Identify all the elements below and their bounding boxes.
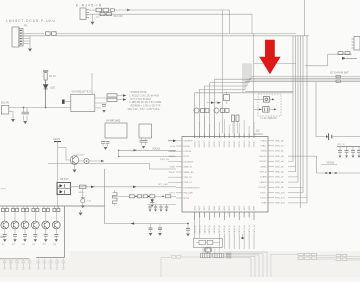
- svg-text:R12 330: R12 330: [114, 15, 124, 18]
- svg-text:LM48C7-DCAB-P-UKU: LM48C7-DCAB-P-UKU: [6, 19, 56, 23]
- capacitor C9 electrolytic: [82, 189, 84, 198]
- arrow on opto wire: [91, 186, 95, 189]
- supply rail wires to CPU: [119, 150, 176, 156]
- capacitor C13: [159, 224, 161, 228]
- CPU right net labels: [275, 139, 286, 204]
- svg-text:TOUT1: TOUT1: [260, 192, 268, 194]
- resistor R108 on second row: [107, 13, 112, 16]
- svg-text:NTRS: NTRS: [184, 198, 190, 200]
- svg-text:R1 1K: R1 1K: [49, 74, 56, 78]
- ground below J2: [91, 22, 95, 25]
- faint resistor cluster A: [298, 253, 317, 259]
- svg-text:SEQ 3.3V - 1.8V - 1.25V 5-8ms: SEQ 3.3V - 1.8V - 1.25V 5-8ms: [128, 109, 161, 111]
- svg-text:OPT1: OPT1: [1, 189, 7, 191]
- diode D2: [107, 98, 117, 101]
- svg-text:* POWER NOTE:: * POWER NOTE:: [129, 92, 147, 94]
- svg-text:OUT 3.3V/0.8A MAX: OUT 3.3V/0.8A MAX: [130, 98, 151, 101]
- decoupling cap at 359: [357, 151, 360, 153]
- svg-text:VDDMOP: VDDMOP: [184, 141, 194, 143]
- CPU top pin wires above: [195, 113, 254, 134]
- parts inside sub board box: [199, 240, 206, 244]
- arrowhead after FB4 wire: [123, 94, 126, 97]
- svg-text:WRD_A5: WRD_A5: [275, 165, 285, 168]
- arrowheads osc: [272, 98, 275, 100]
- driver stage Q3: [21, 208, 29, 246]
- sub board box under CPU: [193, 238, 222, 247]
- bead cluster FB5: [194, 108, 199, 113]
- svg-text:VDD1IO: VDD1IO: [219, 140, 221, 148]
- driver stage Q1: [1, 208, 9, 246]
- resistor R102: [103, 8, 109, 12]
- dashed box oscillator section: [258, 94, 281, 116]
- svg-text:4N35: 4N35: [79, 192, 85, 194]
- L wire from CPU pin row3: [288, 156, 360, 173]
- notes text block: [128, 92, 162, 111]
- red arrow annotation: [259, 40, 280, 75]
- svg-text:LNGNDRSTCLKI: LNGNDRSTCLKI: [184, 187, 200, 189]
- ground under C4: [102, 110, 105, 113]
- wires around osc parts: [254, 99, 274, 109]
- svg-text:OPTO: OPTO: [169, 193, 175, 195]
- faint resistor cluster B: [336, 254, 347, 260]
- svg-text:VDD3IO: VDD3IO: [229, 140, 231, 148]
- decoupling row power bar: [337, 146, 360, 148]
- fan-out wires to next sheet: [223, 252, 267, 277]
- VCC bar above R1: [43, 70, 48, 72]
- capacitor C2: [25, 112, 29, 114]
- vertical supply wire: [57, 142, 59, 208]
- svg-text:2. MP1482 DC-DC 1.8V CORE: 2. MP1482 DC-DC 1.8V CORE: [129, 102, 161, 104]
- svg-text:AD5P: AD5P: [218, 205, 221, 211]
- svg-text:WRD_A1: WRD_A1: [275, 145, 285, 148]
- faint next-sheet caps left: [3, 259, 66, 270]
- svg-text:AD4P: AD4P: [253, 205, 256, 211]
- svg-text:AD2P: AD2P: [243, 205, 246, 211]
- svg-text:WRD_A8: WRD_A8: [275, 181, 285, 184]
- svg-text:WRD_A6: WRD_A6: [275, 171, 285, 174]
- junction dots on row: [135, 196, 137, 198]
- junction dot opto: [57, 186, 59, 188]
- driver stage Q6: [52, 208, 60, 246]
- svg-text:DAT04_B: DAT04_B: [213, 225, 216, 234]
- capacitor C12: [150, 224, 152, 228]
- caps row C5 C6: [140, 141, 144, 143]
- svg-text:LED: LED: [50, 86, 55, 90]
- svg-text:AD1P: AD1P: [198, 205, 201, 211]
- svg-text:DAT02_B: DAT02_B: [203, 225, 206, 234]
- CPU left pins: [176, 141, 182, 198]
- ground: [104, 147, 108, 150]
- svg-text:VDD33: VDD33: [327, 162, 335, 164]
- bead cluster FB6: [214, 108, 219, 113]
- wires from J2: [89, 10, 252, 22]
- VCC rail symbol: [54, 141, 61, 143]
- RTC battery wire: [316, 82, 360, 137]
- svg-text:DAT00_B: DAT00_B: [193, 225, 196, 234]
- CPU U2 body: [182, 137, 268, 213]
- resistor array RA2: [213, 253, 224, 257]
- arrow on box bottom wire: [131, 222, 135, 225]
- driver stage Q4: [31, 208, 39, 246]
- wire corners dropping to bus: [223, 10, 253, 134]
- ferrite bead FB2: [52, 32, 57, 36]
- horizontal bus lines to right edge: [245, 77, 360, 82]
- wires from terminal: [9, 108, 71, 121]
- bottom-left cap row near CPU: [147, 204, 176, 206]
- svg-text:DAT10_B: DAT10_B: [243, 225, 246, 234]
- driver stage Q5: [42, 208, 50, 246]
- battery BT1: [329, 133, 332, 140]
- bus corner box outline: [245, 34, 296, 134]
- bottom net labels rotated: [193, 225, 255, 234]
- svg-text:AD4P: AD4P: [213, 205, 216, 211]
- svg-text:WAKE_B0: WAKE_B0: [184, 171, 195, 174]
- svg-text:VDD18: VDD18: [152, 147, 161, 150]
- svg-text:WRD_A0: WRD_A0: [275, 139, 285, 142]
- svg-text:DAT03_B: DAT03_B: [208, 225, 211, 234]
- svg-text:VD33: VD33: [170, 146, 176, 148]
- caps under module C7 C8: [101, 142, 105, 144]
- svg-text:U6 817: U6 817: [60, 177, 69, 181]
- resistor R101: [96, 8, 102, 12]
- svg-text:U2: U2: [256, 129, 260, 133]
- svg-text:AD3P: AD3P: [208, 205, 211, 211]
- svg-text:WRD_A9: WRD_A9: [275, 186, 285, 189]
- svg-text:BT1 3V: BT1 3V: [338, 144, 346, 146]
- svg-text:WRD_A7: WRD_A7: [275, 176, 285, 179]
- svg-text:D7 1N4148 BAT: D7 1N4148 BAT: [330, 71, 349, 75]
- grounds for cap row: [149, 210, 152, 212]
- svg-text:EXUREST: EXUREST: [184, 161, 195, 163]
- svg-text:CLKOUT: CLKOUT: [258, 187, 267, 189]
- svg-text:1. AS1117-3.3V LDO IN>4.8V: 1. AS1117-3.3V LDO IN>4.8V: [129, 94, 160, 97]
- svg-text:VDD2IO: VDD2IO: [244, 140, 246, 148]
- decoupling cap at 353: [351, 151, 355, 153]
- svg-text:VDD0IO: VDD0IO: [194, 140, 196, 148]
- svg-text:OPT_LAN: OPT_LAN: [158, 183, 168, 186]
- driver stage Q2: [11, 208, 19, 246]
- faint box left of arrays: [161, 256, 201, 277]
- svg-text:LVDD18: LVDD18: [184, 151, 193, 153]
- svg-text:Y1 32.768KHZ: Y1 32.768KHZ: [260, 117, 277, 120]
- svg-text:DAT08_B: DAT08_B: [233, 225, 236, 234]
- svg-text:Q5 8550: Q5 8550: [76, 155, 85, 157]
- svg-text:AD3P: AD3P: [248, 205, 251, 211]
- svg-text:DAT01_B: DAT01_B: [198, 225, 201, 234]
- ground under C1 C2: [23, 121, 27, 124]
- decoupling cap at 340: [338, 151, 342, 153]
- stepped signal wire: [48, 163, 176, 169]
- bead FB4: [107, 94, 117, 97]
- series resistors on fan lines: [226, 253, 231, 258]
- CPU top pins: [195, 134, 254, 139]
- svg-text:WRD_A12: WRD_A12: [275, 202, 286, 205]
- svg-text:VDD2IO: VDD2IO: [204, 140, 206, 148]
- capacitor C4: [102, 105, 106, 107]
- svg-text:E-RJ45-IN: E-RJ45-IN: [76, 4, 102, 8]
- branch to transistor: [58, 148, 71, 161]
- resistor R106: [336, 80, 340, 82]
- CPU left net labels: [169, 146, 176, 195]
- staircase wires from bus to IC top pins: [195, 63, 293, 133]
- svg-text:NBAT_FL: NBAT_FL: [184, 166, 194, 169]
- driver bank box: [0, 206, 105, 259]
- svg-text:VDD0IO: VDD0IO: [254, 140, 256, 148]
- svg-text:WRD_A2: WRD_A2: [275, 150, 285, 153]
- svg-text:VDD2IO: VDD2IO: [224, 140, 226, 148]
- svg-text:P1: P1: [24, 24, 28, 28]
- resistor R103: [338, 52, 343, 55]
- svg-text:DAT06_B: DAT06_B: [223, 225, 226, 234]
- svg-text:U3 AS1117-3.3: U3 AS1117-3.3: [72, 90, 91, 94]
- resistor R9 on opto wire: [80, 185, 87, 188]
- arrow2 on opto wire: [133, 186, 137, 189]
- svg-text:DAT07_B: DAT07_B: [228, 225, 231, 234]
- resistor array RA1: [201, 253, 212, 257]
- svg-text:AD0P: AD0P: [193, 205, 196, 211]
- resistor R1: [44, 73, 47, 81]
- svg-text:VDD0IO: VDD0IO: [214, 140, 216, 148]
- CPU top pin labels (rotated): [194, 140, 255, 148]
- crystal Y2 below: [204, 247, 211, 253]
- driver feed wires: [3, 206, 59, 208]
- svg-text:XTAL1: XTAL1: [260, 145, 267, 148]
- svg-text:VSSA: VSSA: [261, 202, 267, 205]
- ground under terminal: [11, 119, 15, 122]
- crystal cap C20: [263, 107, 269, 113]
- wires right of U3: [92, 73, 123, 108]
- svg-text:LNRST: LNRST: [184, 146, 192, 148]
- arrow on rail: [134, 149, 138, 151]
- right pin connection stubs to bus: [288, 161, 307, 203]
- svg-text:LADDR: LADDR: [259, 181, 267, 184]
- connector J2: [80, 8, 89, 20]
- J1 pin contacts: [20, 30, 22, 45]
- svg-text:DAT12_B: DAT12_B: [253, 225, 256, 234]
- svg-text:RTCK: RTCK: [184, 156, 190, 158]
- next-sheet gray band at bottom: [0, 251, 360, 277]
- svg-text:AD6P: AD6P: [223, 205, 226, 211]
- svg-text:NWE0: NWE0: [260, 166, 267, 168]
- svg-text:AD0P: AD0P: [233, 205, 236, 211]
- svg-text:S3C2410: S3C2410: [253, 133, 264, 136]
- svg-text:WRD_A3: WRD_A3: [275, 155, 285, 158]
- inductor L1 zigzag: [113, 193, 118, 204]
- wires from J1 pins: [23, 34, 44, 49]
- array to crystal wires: [203, 246, 219, 253]
- svg-text:PWR_EN: PWR_EN: [160, 159, 169, 161]
- arrow marker pointing left: [342, 57, 346, 60]
- long bottom wires: [219, 234, 254, 249]
- CPU bottom pins: [195, 212, 254, 220]
- svg-text:NOE_R: NOE_R: [259, 172, 267, 174]
- transistor Q7: [70, 156, 79, 165]
- svg-text:WKUP: WKUP: [169, 172, 176, 174]
- svg-text:DAT05_B: DAT05_B: [218, 225, 221, 234]
- svg-text:VDD1IO: VDD1IO: [239, 140, 241, 148]
- resistor R104: [345, 52, 350, 55]
- svg-text:WRD_A4: WRD_A4: [275, 160, 285, 163]
- svg-text:WRD_A11: WRD_A11: [275, 197, 286, 200]
- svg-text:AD1P: AD1P: [238, 205, 241, 211]
- ground under C9: [81, 205, 85, 208]
- caps with arrows C10 C11: [211, 102, 214, 104]
- ground under Q7: [74, 164, 76, 169]
- svg-text:NBAT: NBAT: [170, 166, 176, 169]
- connector J3 far right: [352, 37, 360, 51]
- capacitor C1: [22, 112, 26, 114]
- svg-text:LDATA: LDATA: [260, 176, 267, 179]
- LED D1: [43, 80, 48, 108]
- svg-text:OM0_LO: OM0_LO: [184, 182, 193, 184]
- buzzer BZ1: [84, 158, 89, 163]
- svg-text:AD7P: AD7P: [228, 205, 231, 211]
- svg-text:DAT11_B: DAT11_B: [248, 225, 251, 234]
- svg-text:NGCS1: NGCS1: [259, 156, 267, 158]
- vertical bus bundle: [293, 0, 307, 208]
- svg-text:DC-IN: DC-IN: [1, 101, 9, 105]
- faint next sheet wiring right: [271, 254, 360, 277]
- svg-text:IRQ_LAN: IRQ_LAN: [184, 192, 193, 195]
- svg-text:VDD3IO: VDD3IO: [249, 140, 251, 148]
- power bus wire pair to the right: [23, 34, 309, 36]
- crystal Y1: [263, 97, 269, 103]
- resistor R105: [336, 75, 340, 77]
- junction dot on L wire: [329, 172, 331, 174]
- svg-text:VDD1IO: VDD1IO: [199, 140, 201, 148]
- short rail segment: [321, 164, 337, 166]
- svg-text:U4 MP1482: U4 MP1482: [106, 119, 121, 123]
- ferrite bead FB1: [46, 32, 51, 36]
- svg-text:XTAL0: XTAL0: [260, 139, 267, 142]
- CPU right pins: [268, 141, 274, 203]
- svg-text:WRD_A10: WRD_A10: [275, 191, 286, 194]
- resistor R107 on second row: [100, 13, 105, 16]
- junction dots: [23, 107, 25, 109]
- CPU bottom pin labels inside (rotated): [193, 205, 255, 211]
- svg-text:VDD3IO: VDD3IO: [209, 140, 211, 148]
- small box U7: [224, 95, 230, 101]
- svg-text:NGCS2: NGCS2: [259, 161, 267, 163]
- bead FB3: [110, 9, 114, 12]
- svg-text:TOUT2: TOUT2: [260, 198, 268, 200]
- ground for J1: [28, 49, 32, 52]
- connector J1: [12, 27, 23, 47]
- wires to J3: [305, 54, 352, 66]
- dcdc module U5: [139, 124, 152, 138]
- arrow into CPU left pin 1: [168, 140, 173, 142]
- wires around opto: [58, 186, 177, 188]
- switching sub-circuit box: [105, 169, 189, 224]
- svg-text:DAT09_B: DAT09_B: [238, 225, 241, 234]
- svg-text:4.7: 4.7: [96, 15, 100, 19]
- component row on y196: [129, 195, 134, 198]
- svg-text:VCC5: VCC5: [53, 137, 60, 141]
- decoupling cap at 346.5: [345, 151, 349, 153]
- cap C3 dark: [62, 100, 65, 104]
- svg-text:+C21: +C21: [86, 201, 92, 203]
- wire from C9 ground area down: [80, 210, 82, 212]
- svg-text:OM1_LE: OM1_LE: [184, 177, 193, 179]
- svg-text:VDDARM = 1.25V +/-3% TYP: VDDARM = 1.25V +/-3% TYP: [130, 105, 161, 108]
- junction dot right: [241, 237, 243, 239]
- diode D3: [150, 200, 155, 203]
- CPU left pin extension wires: [168, 151, 176, 182]
- svg-text:VDD0IO: VDD0IO: [234, 140, 236, 148]
- arrow marker on signal wire: [127, 9, 131, 12]
- capacitor C14: [187, 223, 189, 225]
- svg-text:VDDA: VDDA: [261, 150, 267, 153]
- svg-text:AD2P: AD2P: [203, 205, 206, 211]
- left edge wire: [0, 236, 4, 238]
- resistor pair R6 R7: [232, 115, 235, 122]
